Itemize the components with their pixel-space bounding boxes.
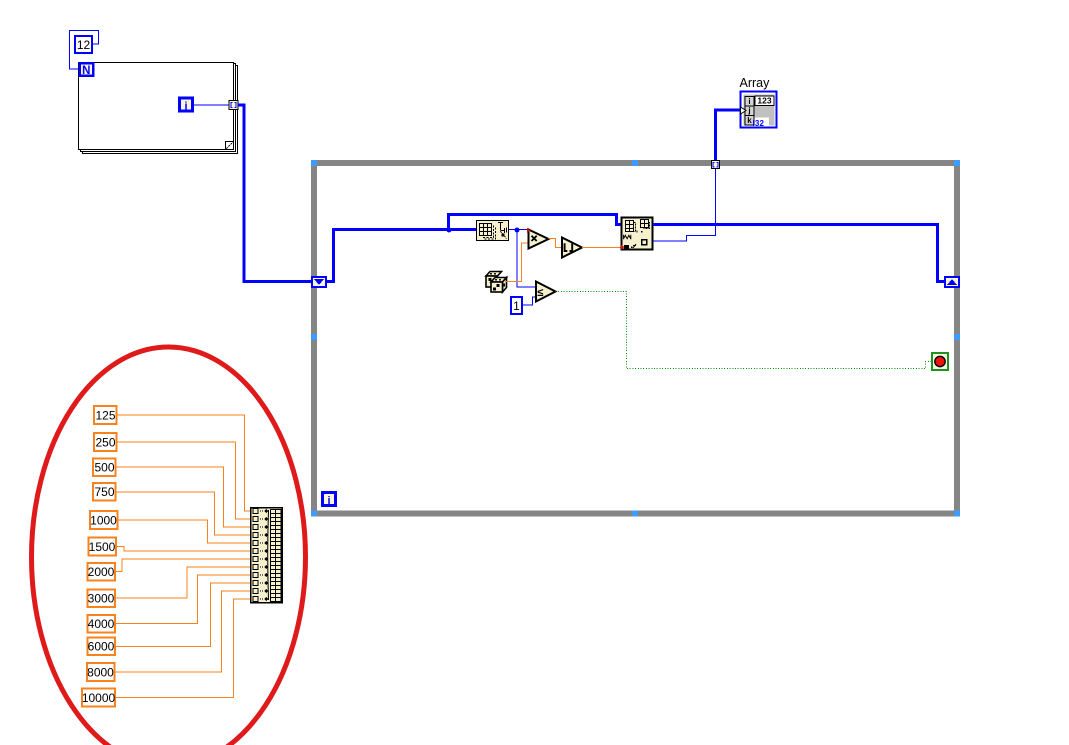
svg-text:8000: 8000 [87, 666, 114, 680]
wire 6000 to row10 [115, 583, 252, 647]
numeric constant 10000 [82, 689, 116, 707]
boolean dotted wire to stop button [556, 292, 933, 369]
index array function [477, 221, 509, 241]
right shift register [945, 277, 959, 287]
numeric constant 4000 [88, 615, 116, 633]
for loop frame (stacked) [79, 63, 238, 154]
svg-text:125: 125 [95, 409, 115, 423]
1 constant [511, 297, 522, 314]
wire left SR to index array (thick) with branch up [326, 230, 476, 282]
red annotation ellipse [32, 347, 306, 745]
wire dice to multiply (orange) [505, 243, 528, 282]
svg-text:4000: 4000 [88, 617, 115, 631]
numeric constant 8000 [87, 663, 115, 681]
svg-text:500: 500 [94, 461, 114, 475]
wire 125 to build array row1 [117, 415, 252, 511]
while loop i terminal [323, 493, 336, 508]
less or equal function [536, 282, 556, 302]
numeric constant 500 [93, 459, 116, 477]
wire 750 to row4 [116, 492, 252, 535]
wire for-loop tunnel to left shift register (thick array wire) [238, 105, 311, 282]
random number dice [486, 272, 507, 293]
replace array subset function [622, 218, 653, 250]
junction dot 2 [515, 228, 520, 233]
coercion dot multiply [527, 228, 531, 232]
wire 10000 to row12 [115, 599, 251, 698]
svg-text:12: 12 [77, 38, 91, 52]
svg-text:6000: 6000 [88, 640, 115, 654]
wire floor to replace array subset (orange) [582, 247, 621, 249]
svg-text:123: 123 [757, 96, 771, 106]
wire 1 to less-equal [523, 297, 535, 305]
while loop top tunnel [712, 161, 720, 169]
wire tunnel up to array indicator (thick) [716, 110, 740, 161]
svg-text:i: i [748, 97, 750, 106]
wire replace out2 to top tunnel (thin) [653, 169, 716, 241]
numeric constant 125 [94, 406, 117, 424]
array indicator terminal [741, 92, 777, 129]
wire i to tunnel [194, 104, 229, 106]
svg-text:1: 1 [513, 299, 520, 313]
wire 2000 to row7 [115, 559, 251, 572]
for loop indexing tunnel [229, 101, 238, 110]
wire down to less-equal (thin) [517, 230, 535, 287]
wire multiply out to floor (orange) [549, 239, 562, 248]
wire 500 to row3 [116, 467, 252, 527]
svg-text:1000: 1000 [90, 514, 117, 528]
numeric constant 250 [94, 433, 117, 451]
svg-text:N: N [82, 65, 90, 77]
wire index array out to multiply (thin) [509, 229, 527, 231]
junction node dot [447, 228, 452, 233]
svg-text:i: i [184, 101, 187, 113]
build array function [251, 508, 283, 603]
stop button [932, 353, 948, 370]
svg-text:1500: 1500 [89, 540, 116, 554]
svg-text:I32: I32 [753, 119, 765, 128]
svg-text:i: i [327, 495, 330, 507]
numeric constant 1500 [89, 538, 117, 556]
numeric constant 2000 [88, 563, 116, 581]
wire replace out to right SR (thick) [653, 225, 945, 282]
svg-text:10000: 10000 [82, 691, 116, 705]
floor (round toward -inf) function [562, 238, 582, 258]
numeric constant 750 [93, 483, 116, 501]
svg-text:2000: 2000 [88, 565, 115, 579]
numeric constant 1000 [90, 511, 118, 529]
N count terminal [80, 63, 94, 77]
svg-text:750: 750 [94, 485, 114, 499]
while loop border [314, 163, 957, 514]
i iteration terminal (for loop) [180, 98, 193, 113]
svg-text:3000: 3000 [88, 592, 115, 606]
wire 8000 to row11 [115, 591, 252, 672]
svg-text:Array: Array [740, 76, 771, 90]
wire 3000 to row8 [115, 567, 251, 598]
wire branch up to top rail (thick) [449, 215, 622, 230]
while loop sizing handles [311, 160, 960, 517]
multiply function [529, 230, 549, 249]
wire 4000 to row9 [115, 575, 252, 624]
numeric constant 6000 [88, 638, 116, 656]
wire 1500 to row6 [116, 547, 251, 552]
wire 12 to N [70, 31, 99, 70]
svg-text:j: j [747, 106, 750, 115]
numeric constant 3000 [88, 590, 116, 608]
svg-text:≤: ≤ [537, 287, 543, 299]
wire 250 to row2 [117, 442, 252, 519]
for loop page curl [226, 142, 234, 150]
coercion dot replace input [621, 245, 625, 250]
left shift register [312, 277, 326, 287]
svg-text:250: 250 [95, 436, 115, 450]
numeric constant 12 [75, 36, 92, 53]
wire 1000 to row5 [118, 520, 252, 543]
